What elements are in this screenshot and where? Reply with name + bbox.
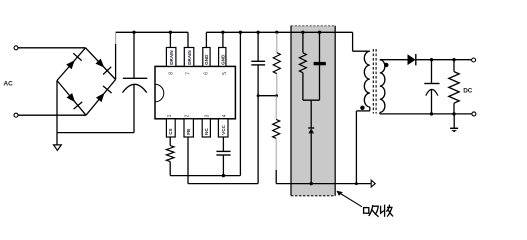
open arrow terminal <box>371 180 375 187</box>
wire R4 bottom lead grey <box>275 138 277 170</box>
IC U1 body <box>155 66 235 118</box>
resistor R3 <box>273 53 280 74</box>
capacitor C2 (VCC) <box>216 150 230 152</box>
resistor R2 CS <box>166 146 174 162</box>
junction gnd rail <box>221 31 224 34</box>
output capacitor C5 <box>431 60 433 84</box>
wire R5 top lead <box>302 32 304 53</box>
wire secondary bottom <box>379 112 381 114</box>
wire drain rail <box>116 31 188 33</box>
junction joint left <box>257 94 260 97</box>
wire gnd rail down to primary <box>352 32 354 51</box>
wire C3 down to FB line <box>257 65 259 184</box>
svg-text:NC: NC <box>204 127 209 134</box>
wire to primary top <box>353 50 370 52</box>
label XiShou (absorb) drawn glyphs <box>364 205 393 217</box>
wire R2 to L1 <box>169 162 171 176</box>
junction output- / C5 <box>430 112 433 115</box>
svg-text:5: 5 <box>222 72 228 75</box>
wire negative to bulk cap bottom <box>57 132 134 134</box>
wire pin2 FB down <box>187 137 189 184</box>
junction joint right <box>275 94 278 97</box>
wire joint to D5 <box>310 100 312 128</box>
wire pin6 to gnd rail <box>205 32 207 47</box>
IC pin3 NC box <box>202 119 210 137</box>
svg-text:2: 2 <box>184 114 190 117</box>
wire FB line <box>188 183 258 185</box>
wire D6 to DC+ terminal <box>416 59 472 61</box>
wire gnd rail <box>206 31 352 33</box>
DC output terminal + <box>472 58 476 62</box>
svg-text:GND: GND <box>204 54 209 65</box>
junction output+ / C5 <box>430 58 433 61</box>
wire L1 (gnd return) <box>170 175 240 177</box>
IC pin6 GND box <box>203 48 210 67</box>
junction output- / R6 <box>452 112 455 115</box>
DC output terminal - <box>472 112 476 116</box>
ground at DC output <box>453 114 455 128</box>
junction FB line / primary <box>355 182 358 185</box>
svg-text:FB: FB <box>186 128 191 135</box>
wire R3 top lead grey <box>276 33 278 53</box>
ground arrow at bridge negative <box>54 145 62 151</box>
wire R5 bottom lead <box>302 73 304 101</box>
junction gnd rail <box>275 31 278 34</box>
wire bridge positive grey stub <box>115 33 117 44</box>
wire R3 bottom lead grey <box>276 74 278 96</box>
wire snubber joint <box>303 99 320 101</box>
wire secondary top to D6 <box>380 59 408 61</box>
bridge diode D3 <box>67 93 76 102</box>
IC pin4 VCC box <box>218 119 228 137</box>
wire snubber return to arrow terminal <box>276 183 371 185</box>
IC pin7 DRAIN box <box>184 48 194 67</box>
wire bridge negative down <box>56 81 58 146</box>
svg-text:1: 1 <box>167 114 173 117</box>
wire pin7 to drain rail <box>187 32 189 47</box>
resistor R6 zigzag <box>449 72 459 104</box>
wire primary bottom to FB line <box>369 107 371 111</box>
svg-text:VCC: VCC <box>221 124 226 134</box>
svg-text:DRAIN: DRAIN <box>187 50 192 65</box>
svg-text:AC: AC <box>4 81 14 88</box>
AC input terminal top <box>14 46 18 50</box>
svg-text:GND: GND <box>221 54 226 65</box>
bridge diode D2 <box>96 59 105 68</box>
bridge diode D4 <box>96 93 105 102</box>
transformer primary winding <box>364 51 369 107</box>
junction FB line / D5 <box>310 182 313 185</box>
junction gnd rail <box>301 31 304 34</box>
IC pin1 CS box <box>166 119 175 137</box>
IC pin2 FB box <box>184 119 193 137</box>
load resistor R6 <box>453 60 455 72</box>
wire pin5 to gnd rail <box>222 32 224 47</box>
wire D5 to FB line <box>310 133 312 183</box>
phase dot secondary <box>384 63 388 67</box>
resistor R5 (snubber) <box>299 53 306 73</box>
IC notch <box>155 84 164 102</box>
transformer core <box>372 49 374 114</box>
bulk capacitor C1 <box>133 32 135 78</box>
wire gnd rail to L1 <box>239 32 241 175</box>
IC pin8 DRAIN box <box>166 48 176 67</box>
bridge diode D1 <box>66 60 75 69</box>
svg-text:7: 7 <box>186 72 192 75</box>
wire pin8 to drain rail <box>169 32 171 47</box>
junction drain rail / C1 <box>132 31 135 34</box>
junction L1 / C2 <box>222 174 225 177</box>
svg-text:8: 8 <box>168 72 174 75</box>
wire bridge positive up <box>115 44 117 80</box>
svg-text:CS: CS <box>168 128 173 134</box>
svg-text:3: 3 <box>205 114 211 117</box>
wire R4 top lead grey <box>275 96 277 120</box>
svg-text:DRAIN: DRAIN <box>169 50 174 65</box>
wire secondary bottom to DC- terminal <box>380 113 472 115</box>
junction gnd rail <box>318 31 321 34</box>
wire AC bottom to bridge <box>18 114 86 116</box>
junction gnd rail <box>239 31 242 34</box>
svg-text:4: 4 <box>222 114 228 117</box>
svg-text:DC: DC <box>463 88 473 95</box>
bridge rectifier frame <box>57 48 86 81</box>
phase dot primary <box>360 106 364 110</box>
wire R4 bottom lead <box>275 170 277 184</box>
junction output+ / R6 <box>452 58 455 61</box>
AC input terminal bottom <box>14 113 18 117</box>
capacitor C4 (snubber) <box>319 32 321 62</box>
junction gnd rail <box>256 31 259 34</box>
diode D6 (output) <box>408 54 416 65</box>
IC pin5 GND box <box>219 48 226 67</box>
transformer secondary winding <box>380 60 385 113</box>
wire joint C3/R3 <box>258 95 277 97</box>
wire pin1 CS down <box>169 137 171 146</box>
svg-text:6: 6 <box>203 72 209 75</box>
snubber highlight box <box>291 26 335 196</box>
diode D5 (snubber) <box>308 127 314 129</box>
capacitor C3 <box>257 32 259 61</box>
wire AC top to bridge <box>18 47 85 49</box>
callout arrow to snubber box <box>339 193 362 207</box>
junction drain rail / pin8 <box>169 31 172 34</box>
wire pin4 VCC down <box>222 137 224 151</box>
resistor R4 <box>273 119 280 138</box>
